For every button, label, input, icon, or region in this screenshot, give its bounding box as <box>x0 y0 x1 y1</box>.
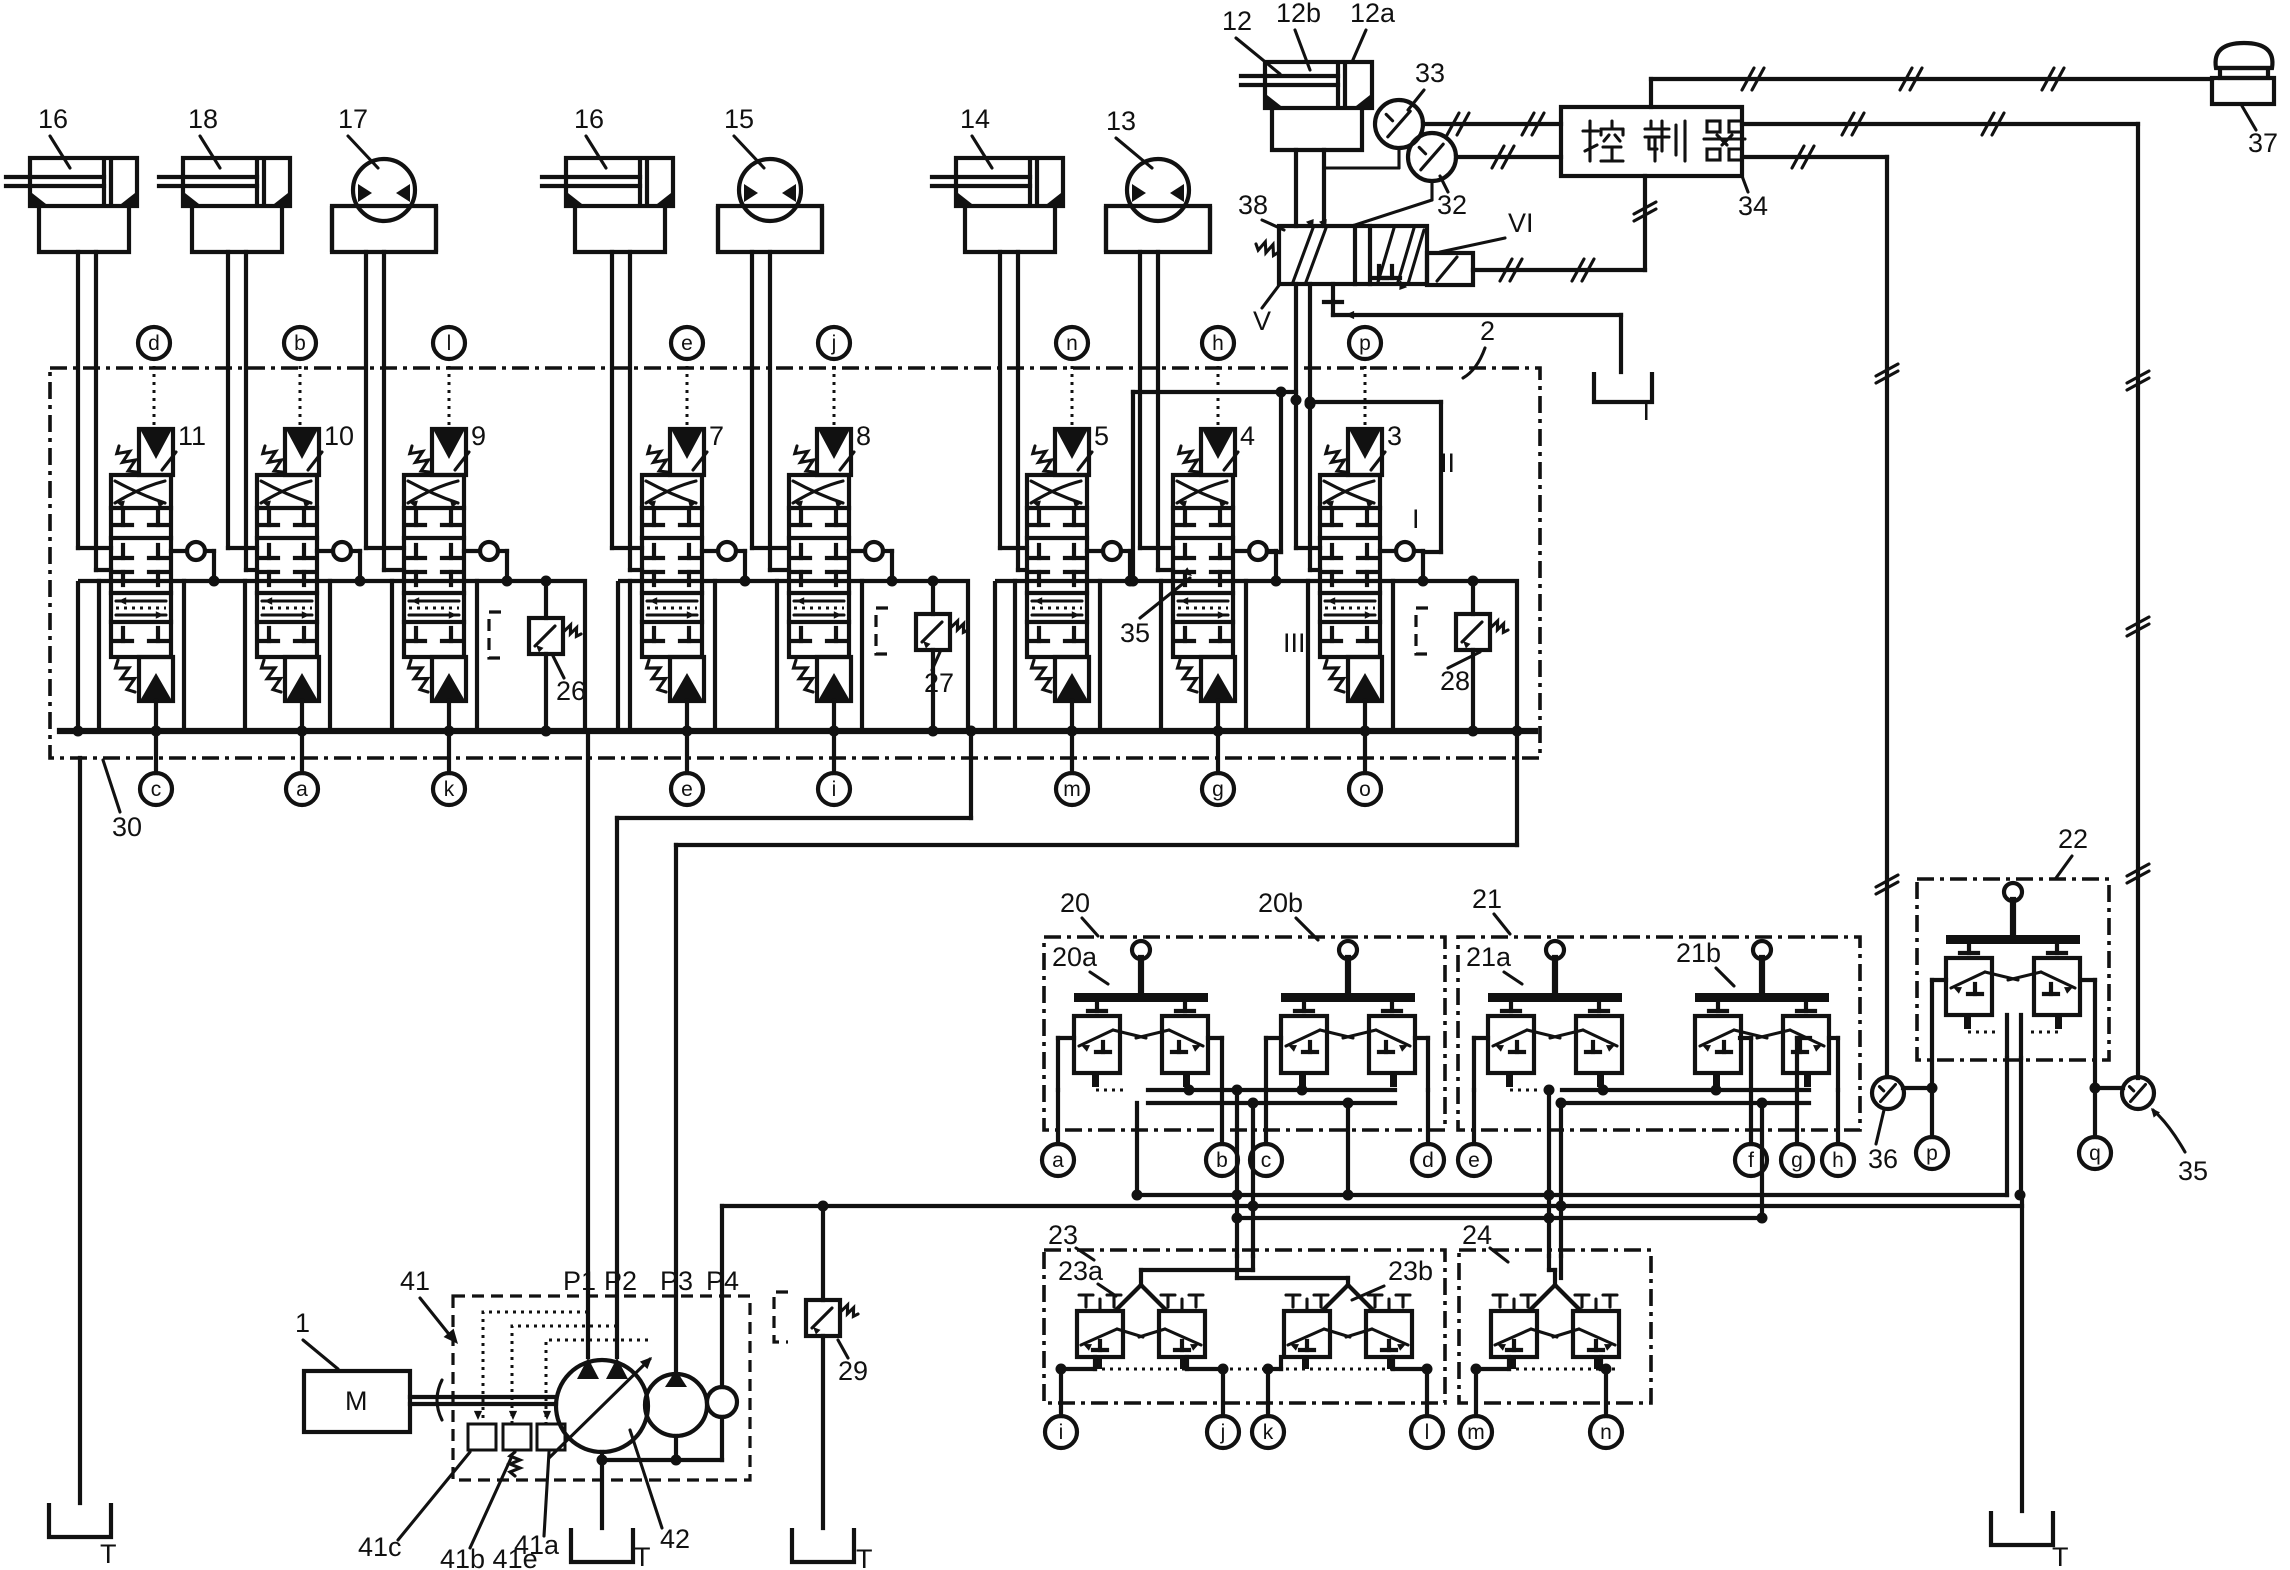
label 20b <box>1258 888 1318 940</box>
wire feed loop valve 3 <box>1305 397 1442 553</box>
pilot port j <box>1187 1357 1239 1448</box>
tank T left <box>49 1503 117 1569</box>
svg-text:g: g <box>1212 778 1224 801</box>
svg-text:e: e <box>1468 1149 1480 1172</box>
svg-text:n: n <box>1066 332 1078 355</box>
wires supply 24 <box>1549 1256 1561 1285</box>
wire left drain <box>78 758 82 1503</box>
rails valve 3 <box>1308 581 1393 731</box>
shaft <box>410 1380 556 1420</box>
label 30 <box>103 760 142 842</box>
svg-text:34: 34 <box>1738 191 1768 221</box>
tank T right <box>1991 1511 2069 1570</box>
bus line valve block <box>60 728 1535 734</box>
valve group frame middle <box>618 581 968 731</box>
wire actuator to valve 1218 <box>1140 252 1173 570</box>
svg-text:I: I <box>1412 504 1420 534</box>
svg-text:p: p <box>1359 332 1371 355</box>
label 21a <box>1466 942 1522 984</box>
svg-text:8: 8 <box>856 421 871 451</box>
svg-text:41a: 41a <box>514 1530 560 1560</box>
rails valve 9 <box>392 581 477 731</box>
svg-text:o: o <box>1359 778 1371 801</box>
pilot block 21 boundary <box>1458 937 1860 1130</box>
svg-text:36: 36 <box>1868 1144 1898 1174</box>
main control valve 8 <box>789 421 892 701</box>
bus upper <box>1137 1058 2026 1201</box>
svg-text:28: 28 <box>1440 666 1470 696</box>
pilot block 22 boundary <box>1917 879 2109 1060</box>
label 37 <box>2242 106 2278 158</box>
pilot unit 21a <box>1488 941 1622 1090</box>
motor box M (1) <box>304 1371 410 1432</box>
pilot control dotted lines <box>483 1312 648 1424</box>
wire controller to gauge35 line <box>1742 113 2149 1078</box>
svg-text:q: q <box>2089 1142 2101 1165</box>
pilot port m bottom <box>1056 701 1088 805</box>
wire valve38 out to controller <box>1473 176 1656 281</box>
svg-text:23a: 23a <box>1058 1256 1104 1286</box>
cylinder 18 <box>159 104 290 252</box>
svg-text:f: f <box>1748 1149 1754 1172</box>
gauge 32 <box>1352 133 1456 226</box>
labels 12 12b 12a <box>1222 0 1396 74</box>
junction valve 5 <box>1067 726 1078 737</box>
tank T relief29 <box>792 1528 873 1570</box>
pilot port g bottom <box>1202 701 1234 805</box>
rails valve 10 <box>245 581 330 731</box>
pilot port a bottom <box>286 701 318 805</box>
reducing valves 24 <box>1491 1285 1619 1369</box>
svg-text:33: 33 <box>1415 58 1445 88</box>
internal gallery 20 <box>1148 1085 1395 1109</box>
label 34 <box>1738 176 1768 221</box>
main control valve 7 <box>642 421 745 701</box>
gauge 36 <box>1872 1077 1938 1109</box>
wires supply 23 <box>1141 1256 1348 1285</box>
svg-text:5: 5 <box>1094 421 1109 451</box>
wire feeds to block 24 <box>1544 1085 1567 1257</box>
pilot unit 20b <box>1281 941 1415 1090</box>
svg-text:12b: 12b <box>1276 0 1321 28</box>
svg-text:16: 16 <box>38 104 68 134</box>
label 2 <box>1463 316 1495 378</box>
wire valve38 to valve3 <box>1291 284 1321 570</box>
pilot port e bottom <box>671 701 703 805</box>
label 21b <box>1676 938 1734 986</box>
svg-text:m: m <box>1467 1421 1485 1444</box>
pilot port m <box>1460 1357 1509 1448</box>
regulator valve 41b <box>503 1411 531 1476</box>
svg-text:c: c <box>1261 1149 1272 1172</box>
main control valve 5 <box>1027 421 1130 701</box>
rails valve 8 <box>777 581 862 731</box>
pilot port a <box>1042 1090 1074 1176</box>
wire feed loop valve 4 <box>1133 387 1296 582</box>
svg-text:g: g <box>1791 1149 1803 1172</box>
labels P1-P4 <box>563 1266 739 1296</box>
main control valve 10 <box>257 421 360 701</box>
svg-text:7: 7 <box>709 421 724 451</box>
svg-text:M: M <box>345 1386 368 1416</box>
wire P1 <box>586 731 590 1357</box>
junctions bus <box>73 726 1523 737</box>
wire controller to gauge36 line <box>1742 146 1898 1077</box>
svg-text:c: c <box>151 778 162 801</box>
wire cylinder12 to valve38 <box>1296 150 1324 226</box>
regulator valve 41c <box>468 1411 496 1450</box>
pilot port c <box>1250 1090 1282 1176</box>
svg-text:21b: 21b <box>1676 938 1721 968</box>
svg-text:13: 13 <box>1106 106 1136 136</box>
pilot port c bottom <box>140 701 172 805</box>
pilot port n top <box>1056 327 1088 429</box>
wires pilot 22 outputs <box>1932 980 2095 1088</box>
pilot port e <box>1458 1090 1490 1176</box>
pilot port k bottom <box>433 701 465 805</box>
port q <box>2079 1088 2111 1169</box>
pilot unit 21b <box>1695 941 1829 1090</box>
label 29 <box>838 1340 868 1386</box>
wires pilot unit outputs 20 <box>1058 1038 1428 1090</box>
svg-text:15: 15 <box>724 104 754 134</box>
pilot port g <box>1781 1090 1813 1176</box>
pilot port n <box>1590 1357 1622 1448</box>
svg-text:j: j <box>831 332 837 355</box>
svg-text:20a: 20a <box>1052 942 1098 972</box>
pilot unit 20a <box>1074 941 1208 1090</box>
bus lower fragment <box>1237 1216 1762 1220</box>
label 20 <box>1060 888 1098 936</box>
regulator valve 41a <box>537 1411 565 1450</box>
relief valve 28 <box>1471 581 1475 731</box>
pilot port j top <box>818 327 850 429</box>
svg-text:P3: P3 <box>660 1266 693 1296</box>
svg-text:17: 17 <box>338 104 368 134</box>
wire 22 drop to tank <box>2021 1058 2022 1511</box>
main control valve 3 <box>1320 421 1423 701</box>
svg-text:T: T <box>100 1539 117 1569</box>
wire actuator to valve 449 <box>366 252 404 570</box>
motor 17 <box>332 104 436 252</box>
valve group frame right <box>995 581 1517 731</box>
component 37 (buzzer) <box>2212 43 2274 104</box>
svg-text:9: 9 <box>471 421 486 451</box>
svg-text:37: 37 <box>2248 128 2278 158</box>
main pump 42 <box>549 1357 652 1458</box>
svg-text:V: V <box>1253 306 1271 336</box>
label 41 <box>400 1266 458 1344</box>
svg-text:T: T <box>634 1542 651 1570</box>
svg-text:24: 24 <box>1462 1220 1492 1250</box>
pilot port l <box>1393 1357 1443 1448</box>
svg-text:23b: 23b <box>1388 1256 1433 1286</box>
pilot unit 22 <box>1946 883 2080 1032</box>
pilot port p top <box>1349 327 1381 429</box>
svg-text:23: 23 <box>1048 1220 1078 1250</box>
svg-text:T: T <box>1638 396 1655 426</box>
svg-text:VI: VI <box>1508 208 1534 238</box>
svg-text:T: T <box>2052 1542 2069 1570</box>
junction valve 7 <box>682 726 693 737</box>
svg-text:20b: 20b <box>1258 888 1303 918</box>
drain gallery 24 <box>1492 1368 1618 1371</box>
svg-text:i: i <box>832 778 837 801</box>
label 20a <box>1052 942 1108 984</box>
label 23 <box>1048 1220 1094 1260</box>
label 23b <box>1352 1256 1433 1300</box>
labels I II III 35 <box>1120 448 1455 658</box>
junction dots supply rail <box>209 576 1479 587</box>
rails valve 7 <box>630 581 715 731</box>
wire feeds to block 23 <box>1232 1085 1259 1257</box>
wire controller to 37 <box>1651 68 2212 107</box>
svg-text:a: a <box>1052 1149 1064 1172</box>
pilot port b <box>1206 1090 1238 1176</box>
svg-text:h: h <box>1212 332 1224 355</box>
labels 41c 41b 41e 41a 42 <box>358 1452 470 1562</box>
drain gallery 23 <box>1078 1368 1412 1371</box>
wire P4 bus <box>722 1201 2022 1212</box>
svg-text:21: 21 <box>1472 884 1502 914</box>
label 21 <box>1472 884 1510 934</box>
svg-text:j: j <box>1220 1421 1226 1444</box>
svg-text:10: 10 <box>324 421 354 451</box>
rails valve 5 <box>1015 581 1100 731</box>
pilot port f <box>1735 1090 1767 1176</box>
internal gallery 21 <box>1562 1085 1809 1109</box>
wire P3 <box>676 731 1517 1372</box>
svg-text:i: i <box>1059 1421 1064 1444</box>
wire actuator to valve 302 <box>228 252 257 570</box>
wire P2 <box>617 731 971 1357</box>
main control valve 9 <box>404 421 507 701</box>
wire gauge32 to controller <box>1456 146 1561 168</box>
pilot port d <box>1412 1090 1444 1176</box>
wire actuator to valve 834 <box>752 252 789 570</box>
pilot block 23 boundary <box>1044 1250 1445 1403</box>
label 24 <box>1462 1220 1508 1262</box>
svg-text:P4: P4 <box>706 1266 739 1296</box>
gauge 35 <box>2090 1077 2155 1109</box>
pilot block 24 boundary <box>1459 1250 1651 1403</box>
svg-text:l: l <box>1425 1421 1430 1444</box>
svg-text:II: II <box>1440 448 1455 478</box>
svg-text:16: 16 <box>574 104 604 134</box>
svg-text:e: e <box>681 778 693 801</box>
text controller (kong zhi qi) <box>1583 121 1745 161</box>
pump control box 41 (dashed) <box>453 1296 750 1480</box>
svg-text:14: 14 <box>960 104 990 134</box>
rails valve 11 <box>99 581 184 731</box>
cylinder 12 <box>1241 62 1372 150</box>
svg-text:b: b <box>294 332 306 355</box>
svg-text:d: d <box>148 332 160 355</box>
svg-text:e: e <box>681 332 693 355</box>
svg-text:12a: 12a <box>1350 0 1396 28</box>
main control valve 11 <box>111 421 214 701</box>
svg-text:d: d <box>1422 1149 1434 1172</box>
svg-text:42: 42 <box>660 1524 690 1554</box>
svg-text:P2: P2 <box>604 1266 637 1296</box>
cylinder 16 (second) <box>542 104 673 252</box>
valve block 2 boundary <box>50 368 1540 758</box>
wire gauge33 to controller <box>1423 113 1561 135</box>
svg-text:38: 38 <box>1238 190 1268 220</box>
svg-text:18: 18 <box>188 104 218 134</box>
wire actuator to valve 156 <box>78 252 111 570</box>
svg-text:26: 26 <box>556 676 586 706</box>
pilot port i bottom <box>818 701 850 805</box>
gauge 33 <box>1324 100 1423 168</box>
tank T valve38 <box>1594 372 1655 426</box>
cylinder 16 <box>6 104 137 252</box>
pilot port i <box>1045 1357 1095 1448</box>
pilot port k <box>1252 1357 1284 1448</box>
svg-text:27: 27 <box>924 668 954 698</box>
svg-text:22: 22 <box>2058 824 2088 854</box>
junction valve 4 <box>1213 726 1224 737</box>
pilot pump small <box>707 1387 737 1417</box>
svg-text:41: 41 <box>400 1266 430 1296</box>
junction valve 9 <box>444 726 455 737</box>
label 23a <box>1058 1256 1116 1296</box>
label 35 gauge <box>2151 1108 2208 1186</box>
svg-text:m: m <box>1063 778 1081 801</box>
pilot port h top <box>1202 327 1234 429</box>
main control valve 4 <box>1173 421 1276 701</box>
relief valve 29 <box>774 1206 858 1528</box>
label 36 <box>1868 1110 1898 1174</box>
svg-text:32: 32 <box>1437 190 1467 220</box>
tank T pump <box>571 1528 651 1570</box>
controller box 34 <box>1561 107 1742 176</box>
wires pilot unit outputs 21 <box>1474 1038 1838 1090</box>
svg-text:a: a <box>296 778 308 801</box>
svg-text:k: k <box>444 778 455 801</box>
svg-text:p: p <box>1926 1142 1938 1165</box>
pilot port b top <box>284 327 316 429</box>
svg-text:35: 35 <box>1120 618 1150 648</box>
svg-text:30: 30 <box>112 812 142 842</box>
wire actuator to valve 1072 <box>1000 252 1027 570</box>
svg-text:4: 4 <box>1240 421 1255 451</box>
labels 38 V VI <box>1238 190 1534 336</box>
svg-text:41c: 41c <box>358 1532 402 1562</box>
junction valve 11 <box>151 726 162 737</box>
pilot center drops <box>1132 1103 1768 1224</box>
svg-text:2: 2 <box>1480 316 1495 346</box>
label 33 <box>1408 58 1445 110</box>
svg-text:T: T <box>856 1544 873 1570</box>
rails valve 4 <box>1161 581 1246 731</box>
label 32 <box>1437 176 1467 220</box>
svg-text:1: 1 <box>295 1308 310 1338</box>
port p <box>1916 1088 1948 1169</box>
svg-text:3: 3 <box>1387 421 1402 451</box>
pump drain lines <box>597 1417 723 1528</box>
pilot port l top <box>433 327 465 429</box>
svg-text:12: 12 <box>1222 6 1252 36</box>
svg-text:P1: P1 <box>563 1266 596 1296</box>
wire valve38 tank port <box>1324 284 1621 372</box>
pilot port h <box>1822 1090 1854 1176</box>
svg-text:l: l <box>447 332 452 355</box>
valve group frame left <box>78 581 585 731</box>
svg-text:20: 20 <box>1060 888 1090 918</box>
valve 38 VI <box>1256 219 1473 290</box>
cylinder 14 <box>932 104 1063 252</box>
svg-text:b: b <box>1216 1149 1228 1172</box>
gear pump <box>645 1370 707 1436</box>
pilot port e top <box>671 327 703 429</box>
svg-text:35: 35 <box>2178 1156 2208 1186</box>
reducing valves 23b <box>1284 1285 1412 1369</box>
pilot port d top <box>138 327 170 429</box>
motor 15 <box>718 104 822 252</box>
reducing valves 23a <box>1077 1285 1205 1369</box>
pilot block 20 boundary <box>1044 937 1445 1130</box>
svg-text:21a: 21a <box>1466 942 1512 972</box>
wire P4 <box>720 1206 724 1387</box>
relief valve 27 <box>931 581 935 731</box>
pilot port o bottom <box>1349 701 1381 805</box>
svg-text:k: k <box>1263 1421 1274 1444</box>
label 1 <box>295 1308 338 1369</box>
junction valve 10 <box>297 726 308 737</box>
svg-text:11: 11 <box>178 421 206 451</box>
relief valve 26 <box>544 581 548 731</box>
label 22 <box>2056 824 2088 878</box>
svg-text:n: n <box>1600 1421 1612 1444</box>
wire actuator to valve 687 <box>612 252 642 570</box>
svg-text:29: 29 <box>838 1356 868 1386</box>
svg-text:h: h <box>1832 1149 1844 1172</box>
junction valve 3 <box>1360 726 1371 737</box>
motor 13 <box>1106 106 1210 252</box>
svg-text:III: III <box>1283 628 1306 658</box>
junction valve 8 <box>829 726 840 737</box>
